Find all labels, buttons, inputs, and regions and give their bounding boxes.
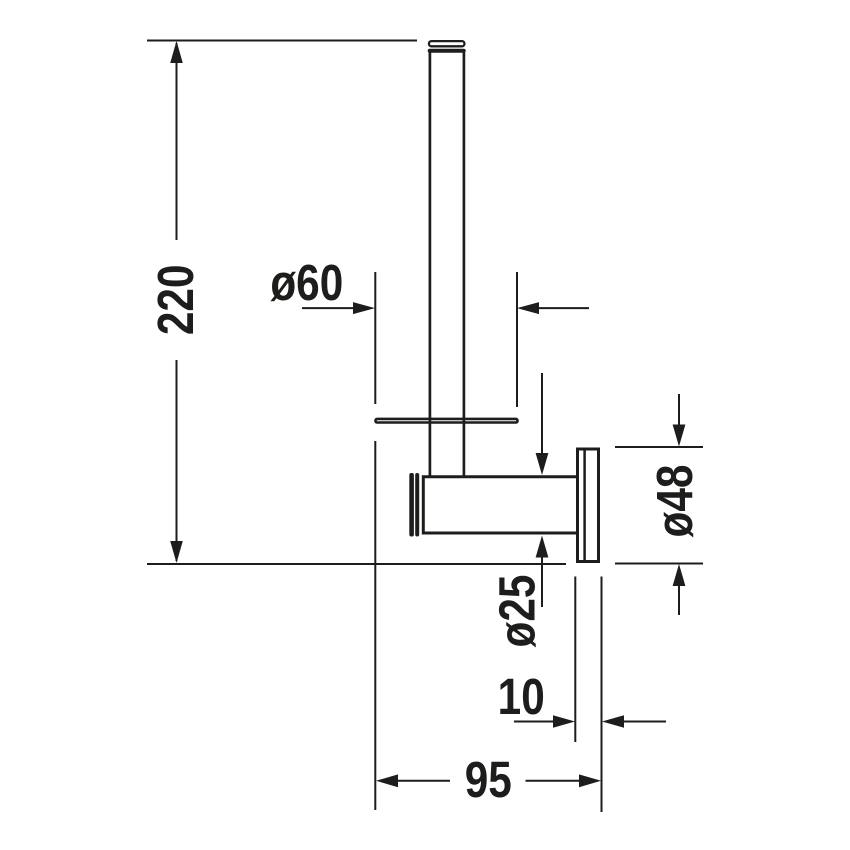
svg-text:10: 10 xyxy=(498,668,545,725)
svg-text:95: 95 xyxy=(465,751,512,808)
svg-text:ø25: ø25 xyxy=(489,575,546,648)
svg-text:220: 220 xyxy=(147,264,204,335)
svg-text:ø48: ø48 xyxy=(646,465,703,538)
svg-text:ø60: ø60 xyxy=(270,254,343,311)
